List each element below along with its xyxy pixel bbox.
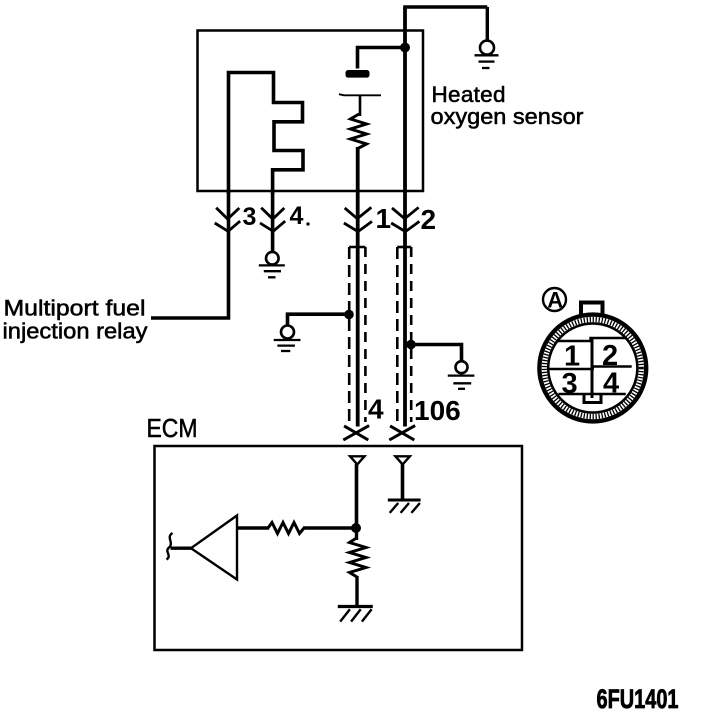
wire ECM pin2 down <box>401 464 405 499</box>
chassis ground pin4 circle <box>266 252 279 265</box>
shield pin1 left dashed <box>348 247 351 422</box>
shield pin1 right dashed <box>364 247 367 422</box>
wire ECM pin1 down <box>355 464 359 528</box>
wire pin2 vertical <box>403 7 407 427</box>
chassis ground top right circle <box>480 41 494 55</box>
wire pin1 vertical <box>356 147 360 427</box>
wire op-amp output left segment <box>237 526 269 529</box>
resistor ECM horizontal <box>268 523 304 534</box>
svg-text:1: 1 <box>376 203 392 234</box>
sensor element plate <box>339 94 381 95</box>
pin 4 label period mark <box>307 223 310 226</box>
connector grid center vertical <box>591 338 594 398</box>
shield pin2 right dashed <box>410 247 413 422</box>
op-amp buffer triangle <box>191 516 237 580</box>
signal ground pin2 hatches <box>390 503 420 513</box>
wire junction to resistor <box>355 528 358 540</box>
svg-text:oxygen sensor: oxygen sensor <box>431 104 585 129</box>
shield pin2 left dashed <box>396 247 399 422</box>
svg-text:3: 3 <box>243 203 257 231</box>
wire op-amp output right segment <box>303 526 358 529</box>
pin 4 arrow <box>260 208 285 232</box>
svg-text:injection relay: injection relay <box>3 319 149 344</box>
wire-end arrow pin2 ECM <box>389 426 415 440</box>
connector grid middle line <box>549 367 632 370</box>
ECM box <box>155 446 523 650</box>
svg-text:Multiport fuel: Multiport fuel <box>4 296 146 321</box>
chassis ground mid-left bars <box>274 340 301 351</box>
shield pin1 top edge <box>349 246 365 249</box>
connector bottom keying notch <box>584 395 601 403</box>
resistor ECM vertical <box>350 538 367 577</box>
wire resistor to ground <box>355 576 358 606</box>
connector grid bottom line <box>558 393 625 396</box>
sensor element blob <box>346 70 370 78</box>
chassis ground mid-right bars <box>448 376 475 389</box>
chassis ground pin4 bars <box>259 265 285 277</box>
pin 2 arrow <box>391 207 419 231</box>
svg-text:2: 2 <box>421 204 437 235</box>
heated oxygen sensor box <box>198 31 424 192</box>
svg-text:4: 4 <box>603 368 619 400</box>
svg-text:4: 4 <box>290 202 304 230</box>
connector outer ring <box>539 315 646 422</box>
junction dot ECM node <box>351 523 361 533</box>
wire op-amp input <box>171 547 193 550</box>
svg-text:ECM: ECM <box>147 415 198 443</box>
wire shield1 to ground <box>288 314 350 325</box>
svg-text:6FU1401: 6FU1401 <box>597 684 679 714</box>
pin 1 arrow <box>344 207 372 231</box>
svg-text:106: 106 <box>414 395 461 426</box>
signal ground pin2 bar <box>388 499 421 502</box>
junction dot shield2 ground <box>406 340 416 350</box>
wire plate to resistor <box>359 95 362 116</box>
wire junction to sensor element <box>358 48 406 69</box>
signal ground ECM hatches <box>340 609 371 621</box>
chassis ground mid-left circle <box>281 326 294 339</box>
connector view label A circle <box>543 288 566 311</box>
connector ring hatch texture <box>544 320 641 417</box>
signal ground ECM bar <box>338 605 373 608</box>
svg-text:A: A <box>547 287 563 312</box>
junction dot shield1 ground <box>344 310 354 320</box>
svg-text:4: 4 <box>368 394 384 425</box>
connector top keying tab <box>581 303 603 318</box>
ECM pin1 terminal triangle <box>350 456 365 464</box>
wire-end arrow pin1 ECM <box>343 426 369 440</box>
heater element meander <box>229 73 304 195</box>
svg-text:3: 3 <box>562 368 578 400</box>
wire down to top ground <box>486 7 489 41</box>
ECM pin2 terminal triangle <box>395 456 410 464</box>
pin 3 arrow <box>215 208 240 232</box>
chassis ground top right bars <box>475 55 499 68</box>
op-amp input squiggle <box>167 533 173 560</box>
chassis ground mid-right circle <box>456 361 468 373</box>
wire pin3 down and left to relay <box>151 191 229 318</box>
wire pin4 to ground <box>271 191 275 252</box>
wire shield2 to ground <box>411 345 462 362</box>
connector inner ring <box>548 323 637 412</box>
connector grid top line <box>557 338 625 341</box>
wire top horizontal <box>403 5 487 8</box>
shield pin2 top edge <box>397 246 411 249</box>
junction dot sensor node <box>400 43 410 53</box>
resistor sensor internal <box>351 114 367 149</box>
